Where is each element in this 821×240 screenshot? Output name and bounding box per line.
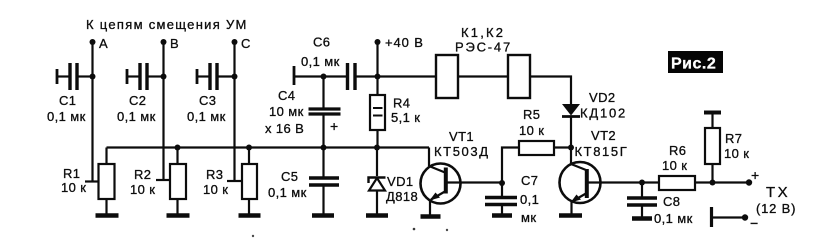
junction C2/B — [161, 74, 167, 80]
junction C1/A — [90, 74, 96, 80]
junction +40/R4 — [375, 74, 381, 80]
svg-text:С5: С5 — [281, 169, 298, 184]
svg-text:R2: R2 — [134, 167, 151, 182]
svg-text:−: − — [750, 215, 759, 231]
wire to TX plus terminal — [713, 181, 750, 183]
scan speck 1 — [413, 228, 416, 231]
node C — [232, 39, 238, 45]
zener diode VD1 — [369, 148, 386, 216]
junction C3/C — [232, 74, 238, 80]
junction VT1 base/R5/C7 — [499, 180, 505, 186]
svg-text:0,1 мк: 0,1 мк — [654, 211, 693, 226]
resistor R4 — [370, 77, 385, 148]
node +40 V — [375, 39, 381, 77]
relay K2 coil — [508, 55, 530, 98]
junction C4-C5/bus — [321, 145, 327, 151]
svg-text:VD2: VD2 — [589, 90, 616, 105]
svg-text:С3: С3 — [199, 93, 216, 108]
leader wire to R3 — [227, 180, 242, 182]
svg-text:К цепям смещения УМ: К цепям смещения УМ — [86, 17, 248, 32]
capacitor C6 — [294, 63, 378, 90]
wire from node C down — [233, 42, 235, 181]
junction R4-VD1/bus — [374, 145, 380, 151]
svg-text:+: + — [330, 118, 339, 134]
svg-text:R6: R6 — [669, 143, 686, 158]
svg-text:С6: С6 — [313, 35, 330, 50]
resistor R7 — [705, 114, 720, 183]
resistor R5 — [502, 141, 571, 183]
svg-text:х 16 В: х 16 В — [265, 121, 304, 136]
ground C8 — [632, 216, 652, 221]
wire between relay coils — [458, 75, 508, 77]
wire relay to VD2 — [530, 77, 571, 105]
bus wire — [107, 146, 430, 148]
junction VT2 base/C8 — [639, 180, 645, 186]
svg-text:КТ815Г: КТ815Г — [575, 144, 629, 159]
svg-text:Рис.2: Рис.2 — [671, 56, 716, 73]
resistor R2 — [170, 148, 186, 216]
svg-text:10 к: 10 к — [662, 158, 687, 173]
svg-text:0,1: 0,1 — [520, 192, 539, 207]
ground R2 — [167, 213, 190, 218]
svg-text:(12 В): (12 В) — [756, 201, 796, 216]
svg-text:0,1 мк: 0,1 мк — [301, 54, 340, 69]
svg-text:0,1 мк: 0,1 мк — [47, 109, 86, 124]
terminal bar minus — [710, 207, 713, 227]
svg-text:РЭС-47: РЭС-47 — [455, 40, 512, 55]
capacitor C5 — [309, 148, 339, 216]
leader wire to R2 — [156, 179, 170, 181]
capacitor C8 — [627, 183, 657, 219]
ground R3 — [239, 213, 261, 218]
svg-text:КТ503Д: КТ503Д — [434, 144, 490, 159]
capacitor C7 — [485, 183, 517, 215]
figure label Рис.2 — [668, 51, 723, 73]
svg-text:А: А — [99, 36, 108, 51]
junction R3/bus — [246, 145, 252, 151]
svg-text:С8: С8 — [663, 194, 680, 209]
transistor VT1 — [421, 148, 503, 217]
svg-text:R1: R1 — [63, 166, 80, 181]
svg-text:ТХ: ТХ — [766, 184, 790, 201]
wire from node A down — [91, 42, 93, 182]
ground R1 — [96, 213, 119, 218]
svg-text:мк: мк — [521, 210, 536, 225]
wire from node B down — [162, 42, 164, 180]
relay K1 coil — [436, 55, 458, 98]
svg-text:+: + — [751, 167, 760, 183]
scan speck 2 — [446, 229, 448, 231]
svg-text:10 к: 10 к — [519, 123, 544, 138]
resistor R3 — [242, 148, 257, 216]
capacitor C4 — [309, 77, 341, 148]
terminal TX plus — [746, 179, 752, 185]
diode VD2 — [562, 104, 580, 148]
junction VD2/R5/VT2 collector — [568, 145, 574, 151]
ground VT2 emitter — [559, 213, 582, 218]
wire minus terminal — [712, 216, 746, 218]
node B — [161, 39, 167, 45]
svg-text:Д818: Д818 — [386, 189, 418, 204]
svg-text:С4: С4 — [278, 88, 295, 103]
node A — [90, 39, 96, 45]
svg-text:R4: R4 — [393, 96, 410, 111]
ground C5 — [312, 213, 334, 218]
wire +40 rail to relay — [378, 75, 437, 77]
svg-text:VT1: VT1 — [449, 129, 474, 144]
capacitor C2 — [127, 63, 164, 90]
scan speck 3 — [252, 235, 254, 237]
svg-text:С: С — [241, 36, 251, 51]
transistor VT2 — [560, 148, 643, 216]
svg-text:10 к: 10 к — [130, 182, 155, 197]
ground C7 — [492, 213, 512, 218]
svg-text:VD1: VD1 — [387, 174, 414, 189]
svg-text:0,1 мк: 0,1 мк — [268, 185, 307, 200]
svg-text:R7: R7 — [725, 131, 742, 146]
svg-text:R5: R5 — [523, 107, 540, 122]
svg-text:10 к: 10 к — [61, 180, 86, 195]
junction R2/bus — [175, 145, 181, 151]
capacitor C3 — [197, 63, 235, 90]
svg-text:0,1 мк: 0,1 мк — [117, 109, 156, 124]
svg-text:10 мк: 10 мк — [269, 104, 304, 119]
leader wire to R1 — [85, 180, 99, 182]
svg-text:VT2: VT2 — [591, 128, 616, 143]
junction R6/R7 — [710, 180, 716, 186]
svg-text:10 к: 10 к — [203, 182, 228, 197]
terminal TX minus — [742, 214, 748, 220]
svg-text:R3: R3 — [206, 167, 223, 182]
junction C4 top — [321, 74, 327, 80]
svg-text:0,1 мк: 0,1 мк — [187, 109, 226, 124]
ground VD1 — [366, 213, 388, 218]
svg-text:10 к: 10 к — [724, 146, 749, 161]
svg-text:КД102: КД102 — [580, 106, 627, 121]
resistor R1 — [99, 148, 115, 216]
svg-text:К1,К2: К1,К2 — [461, 25, 505, 40]
svg-text:С2: С2 — [129, 93, 146, 108]
svg-text:В: В — [170, 36, 179, 51]
svg-text:С1: С1 — [59, 93, 76, 108]
capacitor C1 — [57, 63, 93, 90]
svg-text:С7: С7 — [521, 173, 538, 188]
terminal bar above R7 — [704, 111, 721, 115]
svg-text:5,1 к: 5,1 к — [391, 110, 420, 125]
ground VT1 emitter — [421, 214, 441, 219]
svg-text:+40 В: +40 В — [385, 35, 424, 50]
resistor R6 — [642, 176, 713, 190]
